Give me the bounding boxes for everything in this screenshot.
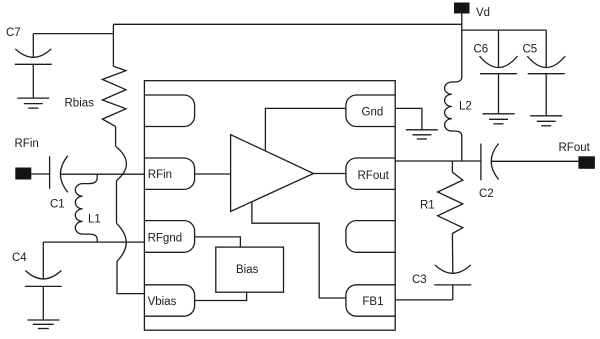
pin pad Gnd bbox=[346, 95, 395, 127]
ground (C7) bbox=[17, 98, 49, 108]
svg-text:C5: C5 bbox=[523, 44, 538, 56]
wire C3 to FB1 pin bbox=[395, 299, 453, 301]
wire hop over RFgnd wire bbox=[117, 223, 127, 261]
wire port to C1 bbox=[31, 173, 50, 175]
svg-text:Rbias: Rbias bbox=[65, 98, 95, 110]
ground (Gnd pin) bbox=[406, 130, 438, 139]
svg-text:FB1: FB1 bbox=[362, 296, 383, 308]
svg-text:L1: L1 bbox=[88, 214, 101, 226]
Bias box bbox=[216, 247, 284, 292]
wire Vd rail down bbox=[461, 14, 463, 78]
wire amp to FB1 pin bbox=[252, 202, 346, 298]
wire top rail bbox=[113, 23, 461, 25]
pin pad RFin bbox=[144, 158, 194, 189]
svg-text:C2: C2 bbox=[479, 188, 494, 200]
resistor Rbias bbox=[102, 66, 126, 126]
wire amp to Gnd pin bbox=[265, 108, 346, 150]
wire C4/L1 to RFgnd pin bbox=[43, 241, 144, 243]
svg-text:C1: C1 bbox=[50, 199, 65, 211]
svg-text:RFin: RFin bbox=[15, 138, 39, 150]
wire Rbias lower lead bbox=[115, 127, 117, 147]
wire Rbias to Vbias pin bbox=[117, 261, 144, 293]
wire RFout rail bbox=[395, 160, 481, 162]
pin pad FB1 bbox=[346, 285, 395, 316]
wire Gnd pin to ground bbox=[395, 108, 422, 129]
ground (C5) bbox=[530, 116, 562, 126]
port RFin bbox=[15, 168, 31, 180]
wire RFgnd pin to Bias bbox=[195, 237, 241, 247]
pin pad Vbias bbox=[144, 285, 194, 316]
svg-text:Bias: Bias bbox=[236, 264, 259, 276]
wire hop over RFin wire bbox=[116, 147, 126, 181]
wire C7 to Rbias node bbox=[33, 33, 113, 35]
ground (C6) bbox=[483, 114, 515, 124]
svg-text:Vbias: Vbias bbox=[148, 296, 177, 308]
inductor L1 bbox=[75, 174, 97, 242]
pin pad NC right bbox=[346, 221, 395, 253]
svg-text:C7: C7 bbox=[6, 27, 21, 39]
pin pad RFgnd bbox=[144, 221, 194, 253]
IC body U1 bbox=[144, 81, 395, 331]
wire amp output to RFout pin bbox=[314, 173, 346, 175]
capacitor C4 bbox=[25, 242, 62, 320]
port RFout bbox=[578, 156, 595, 169]
svg-text:C6: C6 bbox=[474, 44, 489, 56]
svg-text:R1: R1 bbox=[420, 200, 435, 212]
pin pad RFout bbox=[346, 158, 395, 189]
ground (C4) bbox=[27, 320, 59, 329]
op-amp triangle bbox=[231, 135, 314, 212]
wire C2 to RFout port bbox=[491, 160, 578, 162]
resistor R1 bbox=[438, 161, 463, 273]
svg-text:Vd: Vd bbox=[476, 7, 490, 19]
wire C1 to IC RFin pin bbox=[60, 173, 144, 175]
wire bbox=[116, 181, 118, 224]
capacitor C2 bbox=[481, 144, 499, 181]
capacitor C3 bbox=[434, 265, 471, 300]
capacitor C6 bbox=[480, 30, 518, 114]
capacitor C7 bbox=[15, 34, 52, 99]
svg-text:RFin: RFin bbox=[148, 169, 172, 181]
capacitor C1 bbox=[50, 156, 68, 193]
port Vd bbox=[454, 3, 470, 14]
svg-text:L2: L2 bbox=[459, 101, 472, 113]
inductor L2 bbox=[445, 77, 462, 161]
pin pad NC top-left bbox=[144, 95, 194, 127]
svg-text:RFout: RFout bbox=[358, 170, 390, 182]
wire Rbias top lead bbox=[112, 24, 114, 66]
wire Vbias pin to Bias bbox=[195, 292, 247, 300]
wire Vd to C6/C5 rail bbox=[462, 29, 546, 31]
capacitor C5 bbox=[527, 30, 565, 116]
svg-text:C4: C4 bbox=[12, 252, 27, 264]
wire RFin pin to amp bbox=[195, 173, 231, 175]
svg-text:C3: C3 bbox=[412, 274, 427, 286]
svg-text:RFout: RFout bbox=[559, 142, 591, 154]
svg-text:Gnd: Gnd bbox=[362, 106, 384, 118]
svg-text:RFgnd: RFgnd bbox=[148, 232, 183, 244]
